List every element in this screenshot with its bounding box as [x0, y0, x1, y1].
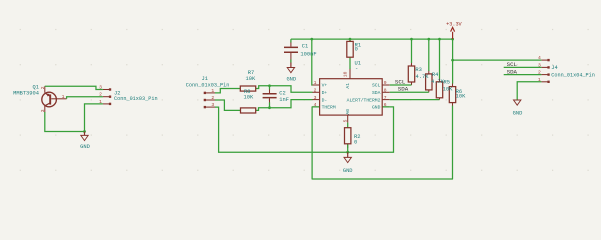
- svg-text:GND: GND: [80, 144, 90, 150]
- svg-text:10K: 10K: [456, 93, 466, 99]
- svg-text:SCL: SCL: [395, 78, 406, 85]
- svg-text:4: 4: [314, 102, 317, 108]
- svg-text:6: 6: [384, 102, 387, 108]
- svg-text:1: 1: [99, 99, 102, 105]
- svg-text:1: 1: [314, 80, 317, 86]
- svg-text:GND: GND: [343, 168, 353, 174]
- svg-text:GND: GND: [513, 110, 523, 116]
- svg-text:Conn_01x04_Pin: Conn_01x04_Pin: [551, 72, 595, 78]
- svg-text:9: 9: [384, 80, 387, 86]
- svg-text:2: 2: [314, 88, 317, 94]
- svg-text:SDA: SDA: [372, 90, 381, 96]
- svg-text:1: 1: [538, 77, 541, 83]
- svg-text:2: 2: [40, 86, 46, 89]
- svg-text:J1: J1: [201, 76, 207, 82]
- svg-text:SDA: SDA: [507, 68, 518, 75]
- svg-text:2: 2: [538, 70, 541, 76]
- svg-text:10: 10: [343, 71, 349, 77]
- svg-text:+3.3V: +3.3V: [446, 21, 462, 27]
- svg-text:0: 0: [355, 46, 358, 52]
- svg-text:J4: J4: [551, 65, 557, 71]
- svg-text:C1: C1: [302, 43, 308, 49]
- svg-text:5: 5: [342, 119, 348, 122]
- svg-text:3: 3: [211, 102, 214, 108]
- svg-text:R4: R4: [432, 72, 438, 78]
- svg-text:THERM: THERM: [322, 105, 336, 111]
- svg-text:MMBT3904: MMBT3904: [13, 90, 39, 96]
- svg-text:2: 2: [99, 92, 102, 98]
- svg-text:C2: C2: [279, 90, 285, 96]
- svg-text:Conn_01x03_Pin: Conn_01x03_Pin: [114, 96, 158, 102]
- svg-text:3: 3: [40, 109, 46, 112]
- svg-text:0: 0: [354, 140, 357, 146]
- svg-text:SDA: SDA: [398, 85, 409, 92]
- svg-text:3: 3: [99, 85, 102, 91]
- svg-text:10K: 10K: [443, 87, 453, 93]
- svg-text:4.7K: 4.7K: [416, 74, 430, 80]
- svg-text:R5: R5: [444, 80, 450, 86]
- svg-text:1nF: 1nF: [279, 97, 289, 103]
- svg-text:A0: A0: [345, 109, 351, 115]
- svg-text:8: 8: [384, 88, 387, 94]
- svg-text:D+: D+: [322, 90, 328, 96]
- svg-text:Q1: Q1: [33, 84, 39, 90]
- svg-text:2: 2: [211, 95, 214, 101]
- svg-text:10K: 10K: [244, 94, 254, 100]
- svg-text:3: 3: [314, 95, 317, 101]
- svg-text:GND: GND: [286, 77, 296, 83]
- svg-text:1: 1: [211, 88, 214, 94]
- svg-text:SCL: SCL: [372, 83, 381, 89]
- svg-text:-: -: [355, 65, 358, 71]
- svg-text:Conn_01x03_Pin: Conn_01x03_Pin: [186, 83, 230, 89]
- svg-text:10K: 10K: [246, 76, 256, 82]
- svg-text:ALERT/THERM2: ALERT/THERM2: [347, 97, 381, 103]
- svg-text:3: 3: [538, 62, 541, 68]
- svg-text:V+: V+: [322, 83, 328, 89]
- svg-text:A1: A1: [345, 83, 351, 89]
- svg-text:GND: GND: [372, 105, 381, 111]
- svg-text:SCL: SCL: [507, 61, 518, 68]
- svg-text:7: 7: [384, 95, 387, 101]
- svg-text:4: 4: [538, 55, 541, 61]
- svg-text:1: 1: [62, 94, 65, 100]
- svg-text:D-: D-: [322, 97, 328, 103]
- svg-text:R3: R3: [415, 67, 421, 73]
- svg-text:100nF: 100nF: [300, 51, 316, 57]
